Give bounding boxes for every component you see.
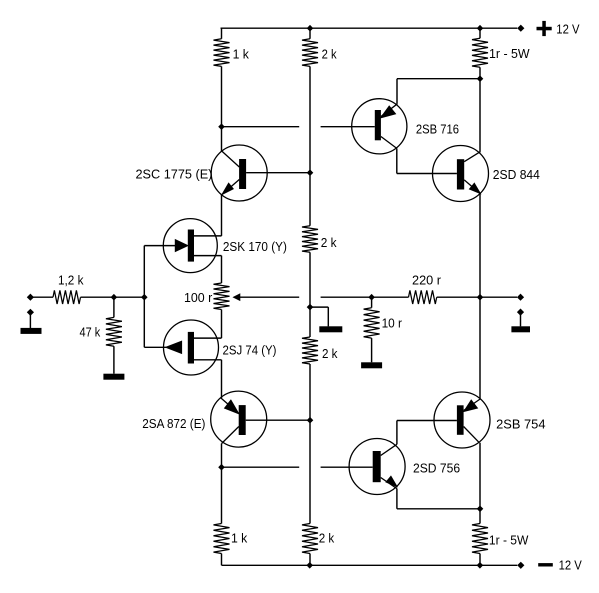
lead 2SK170 drain <box>194 235 222 237</box>
arrow 2SC1775 emitter <box>222 183 233 194</box>
svg-text:1r - 5W: 1r - 5W <box>489 534 529 548</box>
lead 2SC1775 emitter diagonal <box>222 180 239 195</box>
transistor 2SA872 base bar <box>239 405 246 435</box>
label 220r <box>412 274 441 288</box>
svg-text:1 k: 1 k <box>233 48 250 62</box>
transistor 2SC1775 circle <box>211 145 267 201</box>
svg-text:47 k: 47 k <box>80 326 101 340</box>
label 2SD844 <box>493 168 540 182</box>
transistor 2SB716 base bar <box>375 110 381 140</box>
resistor 220r <box>409 290 437 304</box>
lead 2SJ74 drain <box>194 337 222 339</box>
transistor 2SD844 base bar <box>457 159 464 189</box>
resistor 1k (bottom left) <box>214 524 230 554</box>
node 2SC1775 base / middle column <box>307 169 314 176</box>
svg-text:2SC 1775 (E): 2SC 1775 (E) <box>136 168 213 182</box>
svg-text:2 k: 2 k <box>322 347 338 361</box>
wire 1,2k to 47k node <box>81 296 145 298</box>
transistor 2SD844 circle <box>433 146 489 202</box>
wire 1r-5W to emitter node <box>479 67 481 78</box>
wire 2k bottom to rail <box>309 554 311 566</box>
svg-text:2SB 716: 2SB 716 <box>416 123 459 137</box>
wire top rail to R 1k <box>221 28 223 39</box>
wire gap to 2SB716 base <box>321 126 375 128</box>
wire 2k to 2k <box>309 66 311 225</box>
svg-text:2 k: 2 k <box>321 236 337 250</box>
transistor 2SJ74 gate bar <box>188 332 194 364</box>
arrow 2SB754 emitter <box>464 400 478 411</box>
label 2k upper middle <box>321 236 337 250</box>
node 2SA872 collector / base wire / 1k <box>218 464 225 471</box>
ground (middle) <box>319 326 342 332</box>
wire 2SB716 collector to 2SD844 base <box>397 173 457 175</box>
wire 2SD756 emitter down <box>396 489 398 509</box>
transistor 2SD756 base bar <box>373 451 381 482</box>
wire 2SA872 base to middle column <box>246 419 310 421</box>
lead 2SD844 collector diagonal <box>464 152 480 162</box>
wire 2SA872 collector down <box>221 444 223 468</box>
arrow 2SB716 emitter <box>381 106 396 118</box>
label 2SA872 <box>142 417 205 431</box>
resistor 1r-5W (top) <box>472 38 488 67</box>
wire +12V top rail <box>221 27 518 29</box>
svg-text:2SD 756: 2SD 756 <box>413 462 460 476</box>
label 2k bottom <box>319 532 335 546</box>
wire 2SD756 emitter to right rail <box>397 508 480 510</box>
svg-text:2SD 844: 2SD 844 <box>493 168 540 182</box>
wire 47k bottom <box>113 346 115 374</box>
node 1k / Q1 collector / driver base wire <box>218 123 225 130</box>
wire 10r bottom <box>371 338 373 362</box>
wire 2SD756 collector up <box>396 421 398 445</box>
wire collector 2SC1775 <box>221 127 223 151</box>
arrow 2SD756 emitter <box>386 476 397 486</box>
resistor 1k (top left) <box>214 39 230 67</box>
arrow 100r wiper <box>234 294 240 300</box>
wire 100r to 2SJ74 drain <box>221 310 223 339</box>
label 2SB754 <box>496 418 545 432</box>
transistor 2SB754 circle <box>434 392 490 448</box>
arrow 2SD844 emitter <box>470 183 481 193</box>
node bottom rail / 2k <box>306 562 313 569</box>
wire input to R 1,2k <box>30 296 53 298</box>
svg-text:2SA 872 (E): 2SA 872 (E) <box>142 417 205 431</box>
terminal -12V <box>517 562 524 569</box>
svg-text:10 r: 10 r <box>382 317 402 331</box>
transistor 2SA872 circle <box>211 391 267 447</box>
wire 2SB716 collector down <box>396 148 398 173</box>
svg-text:220 r: 220 r <box>412 274 441 288</box>
label +12V <box>556 23 580 37</box>
label 2SD756 <box>413 462 460 476</box>
lead 2SD756 collector diagonal <box>381 444 397 455</box>
transistor 2SK170 circle <box>163 219 217 273</box>
ground (input) <box>21 328 42 334</box>
node gate junction <box>141 294 148 301</box>
wire 2SK170 source to 100r <box>221 256 223 283</box>
lead 2SA872 collector diagonal <box>222 427 239 444</box>
transistor 2SJ74 circle <box>164 320 219 375</box>
ground (output) <box>511 326 530 332</box>
wire top rail to 1r-5W <box>479 28 481 38</box>
node 2SA872 base / middle column <box>307 417 314 424</box>
wire input ground <box>29 312 31 328</box>
wire 2SB754 collector down <box>479 443 481 509</box>
wire 2SJ74 source to 2SA872 emitter <box>221 360 223 398</box>
ground (10r) <box>361 362 382 368</box>
node 10r top <box>368 294 375 301</box>
resistor 10r <box>364 308 380 338</box>
terminal +12V <box>517 25 524 32</box>
wire 2SC1775 base to middle column <box>246 172 310 174</box>
terminal output <box>517 294 524 301</box>
svg-text:2SK 170 (Y): 2SK 170 (Y) <box>223 240 287 254</box>
node top rail / 2k <box>307 25 314 32</box>
wire gap to 2SD756 base <box>321 466 373 468</box>
lead 2SB754 collector diagonal <box>464 427 480 443</box>
wire 2SD844 emitter to output node <box>479 194 481 297</box>
lead 2SJ74 source <box>194 359 222 361</box>
lead 2SD756 emitter diagonal <box>381 478 397 489</box>
lead 2SD844 emitter diagonal <box>464 180 480 194</box>
wire 2SD756 collector to 2SB754 base <box>397 420 457 422</box>
lead 2SC1775 collector diagonal <box>222 151 240 167</box>
wire top rail to 2k <box>309 28 311 39</box>
label 2k top <box>322 48 338 62</box>
resistor 2k (lower middle) <box>302 337 318 364</box>
wire 2SK170 gate <box>144 245 176 247</box>
wire 100r wiper <box>238 296 299 298</box>
wire -12V bottom rail <box>222 564 518 566</box>
terminal output ground <box>517 309 524 316</box>
transistor 2SB716 circle <box>352 99 407 154</box>
node top rail / 1r-5W <box>477 25 484 32</box>
wire 2SB716 emitter up <box>396 79 398 104</box>
svg-text:2SB 754: 2SB 754 <box>496 418 545 432</box>
lead 2SB754 emitter diagonal <box>464 399 481 411</box>
resistor 2k (top middle) <box>302 39 318 67</box>
lead 2SA872 emitter diagonal <box>221 398 239 414</box>
arrow 2SJ74 gate <box>166 341 182 353</box>
wire output node to terminal <box>480 296 517 298</box>
terminal input ground <box>27 309 34 316</box>
wire node to bottom 1k <box>221 467 223 523</box>
svg-text:100 r: 100 r <box>184 291 212 305</box>
label 10r <box>382 317 402 331</box>
label 1k bottom <box>231 532 248 546</box>
wire rail to 1r-5W bottom <box>479 509 481 524</box>
node middle column ground tap <box>307 304 314 311</box>
node bottom rail / 1r-5W <box>477 562 484 569</box>
wire 1k bottom to rail <box>221 554 223 566</box>
arrow 2SK170 gate <box>175 240 188 252</box>
label 1,2k <box>58 274 84 288</box>
svg-text:1,2 k: 1,2 k <box>58 274 84 288</box>
wire rail node to 2SD844 collector <box>479 79 481 152</box>
label 47k <box>80 326 101 340</box>
label 2SJ74 <box>223 343 277 357</box>
label 1r-5W top <box>489 47 530 61</box>
lead 2SB716 emitter diagonal <box>381 104 398 117</box>
svg-text:1 k: 1 k <box>231 532 248 546</box>
wire 2k to ground node <box>309 252 311 337</box>
transistor 2SK170 gate bar <box>188 230 194 262</box>
wire 2SJ74 gate <box>144 346 166 348</box>
svg-text:1r - 5W: 1r - 5W <box>489 47 530 61</box>
resistor 47k <box>106 317 122 346</box>
wire 1r-5W bottom to rail <box>479 554 481 566</box>
wire 10r lead <box>371 297 373 308</box>
transistor 2SD756 circle <box>349 439 405 495</box>
ground (47k) <box>103 374 124 380</box>
terminal input <box>27 294 34 301</box>
resistor 2k (bottom middle) <box>302 524 318 554</box>
label 2SC1775 <box>136 168 213 182</box>
wire A872 node to gap <box>222 466 300 468</box>
node 47k top <box>111 294 118 301</box>
wire 47k top <box>113 297 115 317</box>
arrow 2SA872 emitter <box>225 400 239 414</box>
label 1k top <box>233 48 250 62</box>
label 2SK170 <box>223 240 287 254</box>
svg-text:12 V: 12 V <box>559 559 583 573</box>
label 1r-5W bottom <box>489 534 529 548</box>
resistor 2k (upper middle) <box>302 226 318 253</box>
wire 2SC1775 emitter to 2SK170 drain <box>221 195 223 236</box>
svg-text:2 k: 2 k <box>322 48 338 62</box>
wire gate junction up to 2SK170 <box>143 246 145 298</box>
wire ground tap horizontal <box>310 306 328 308</box>
wire output ground <box>520 312 522 326</box>
svg-text:12 V: 12 V <box>556 23 580 37</box>
resistor 1,2k <box>53 290 81 304</box>
+ symbol (+12V) <box>537 21 552 36</box>
svg-text:2 k: 2 k <box>319 532 335 546</box>
wire gate junction down to 2SJ74 <box>143 297 145 347</box>
node output / right rail <box>477 294 484 301</box>
label 2SB716 <box>416 123 459 137</box>
label 2k lower middle <box>322 347 338 361</box>
lead 2SK170 source <box>194 255 222 257</box>
label 100r <box>184 291 212 305</box>
node right rail / 2SD756 emitter <box>477 506 484 513</box>
- symbol (-12V) <box>538 563 553 566</box>
label -12V <box>559 559 583 573</box>
transistor 2SB754 base bar <box>457 405 464 435</box>
transistor 2SC1775 base bar <box>239 159 246 189</box>
lead 2SB716 collector diagonal <box>381 137 397 149</box>
resistor 100r (potentiometer) <box>214 283 230 310</box>
wire 1k to node <box>221 66 223 126</box>
wire ground tap vertical <box>327 307 329 326</box>
node right rail / 2SB716 emitter <box>477 75 484 82</box>
wire gap to 10r node <box>321 296 409 298</box>
resistor 1r-5W (bottom) <box>472 524 488 554</box>
wire 2k to bottom 2k <box>309 364 311 524</box>
wire output node to 2SB754 emitter <box>479 297 481 398</box>
wire 220r to output node <box>437 296 480 298</box>
wire 2SB716 emitter to right rail <box>397 78 480 80</box>
svg-text:2SJ 74 (Y): 2SJ 74 (Y) <box>223 343 277 357</box>
wire 1k node to gap <box>222 126 300 128</box>
